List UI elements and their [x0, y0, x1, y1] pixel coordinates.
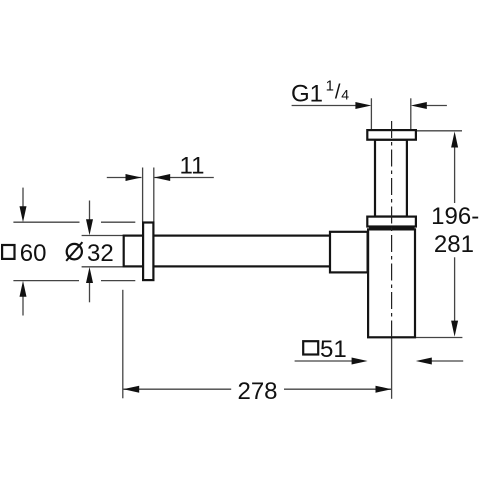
- svg-text:32: 32: [87, 240, 114, 267]
- svg-text:51: 51: [320, 336, 347, 363]
- svg-text:60: 60: [20, 240, 47, 267]
- svg-text:/: /: [335, 82, 341, 104]
- svg-text:G1: G1: [291, 81, 323, 108]
- svg-text:281: 281: [434, 231, 474, 258]
- svg-text:196-: 196-: [431, 203, 479, 230]
- svg-text:1: 1: [326, 77, 334, 94]
- svg-text:4: 4: [341, 86, 349, 102]
- svg-text:278: 278: [237, 378, 277, 405]
- svg-text:11: 11: [180, 153, 205, 180]
